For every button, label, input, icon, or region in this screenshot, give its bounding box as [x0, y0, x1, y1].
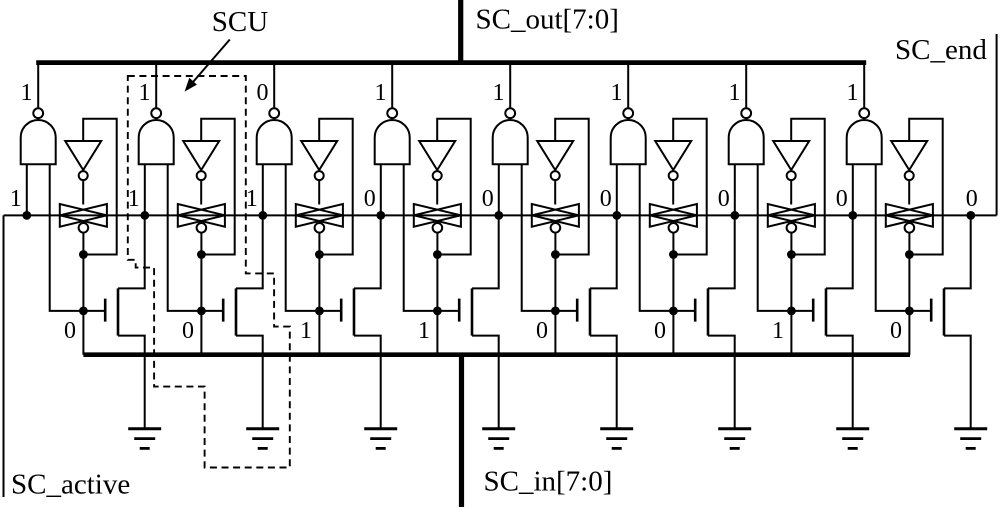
value label 0 at transistor M1 gate node	[64, 318, 76, 344]
wire: top bus to NAND U1 output bubble	[37, 63, 39, 109]
wire: NAND U6 right input down and right to transistor M6 gate	[640, 164, 696, 311]
transistor M1 channel bar	[117, 288, 120, 335]
transistor M5 gate bar	[576, 299, 579, 322]
inverter I1 output bubble	[79, 171, 88, 180]
junction: M7 gate wire meets gate-node vertical wire	[787, 307, 796, 316]
svg-text:1: 1	[128, 186, 140, 212]
wire: inverter I3 output to transmission gate TG3 top	[318, 180, 320, 204]
svg-text:1: 1	[10, 186, 22, 212]
wire: top bus to NAND U7 output bubble	[745, 63, 747, 109]
inverter I3 output bubble	[315, 171, 324, 180]
top bus SC_out (thick)	[36, 60, 866, 65]
wire: inverter I2 input loop (up, over, down to feedback node)	[201, 119, 235, 255]
wire: gate-node vertical (TG8 bubble down to bottom bus)	[908, 233, 910, 355]
cell 1: value label 1 above NAND U1	[21, 80, 33, 106]
svg-text:1: 1	[300, 318, 312, 344]
wire: gate-node vertical (TG4 bubble down to bottom bus)	[436, 233, 438, 355]
ground GND5	[600, 429, 633, 449]
nand U3 output bubble	[269, 108, 279, 118]
svg-text:0: 0	[654, 318, 666, 344]
wire: inverter I4 output to transmission gate TG4 top	[436, 180, 438, 204]
node 4 on scan line, value 0	[364, 186, 385, 220]
junction: M8 gate wire meets gate-node vertical wire	[905, 307, 914, 316]
nand U7 body	[729, 120, 764, 164]
junction: M5 gate wire meets gate-node vertical wire	[551, 307, 560, 316]
wire: NAND U3 right input down and right to transistor M3 gate	[286, 164, 342, 311]
value label 1 at transistor M4 gate node	[418, 318, 430, 344]
svg-text:1: 1	[418, 318, 430, 344]
ground GND6	[718, 429, 751, 449]
junction: M1 gate wire meets gate-node vertical wire	[79, 307, 88, 316]
node 6 on scan line, value 0	[600, 186, 621, 220]
wire: transistor M3 source down to ground	[354, 336, 381, 428]
wire: inverter I3 input loop (up, over, down to feedback node)	[319, 119, 353, 255]
nand U6 body	[611, 120, 646, 164]
junction: feedback node on gate-node wire	[315, 250, 324, 259]
svg-text:0: 0	[966, 186, 978, 212]
svg-text:SC_active: SC_active	[11, 469, 130, 501]
wire: NAND U3 left input down to scan line node	[262, 164, 264, 215]
cell 8: value label 1 above NAND U8	[847, 80, 859, 106]
transistor M5 channel bar	[589, 288, 592, 335]
scan line (horizontal signal wire)	[4, 214, 997, 216]
transistor M7 channel bar	[825, 288, 828, 335]
junction: feedback node on gate-node wire	[433, 250, 442, 259]
junction: feedback node on gate-node wire	[905, 250, 914, 259]
SC_out bus stub bar (thick vertical)	[458, 0, 463, 65]
net label SC_active	[11, 469, 130, 501]
node 1 on scan line, value 1	[10, 186, 31, 220]
nand U2 output bubble	[151, 108, 161, 118]
value label 0 at transistor M6 gate node	[654, 318, 666, 344]
inverter I8 triangle	[891, 141, 927, 170]
svg-text:0: 0	[600, 186, 612, 212]
nand U5 body	[493, 120, 528, 164]
wire: transistor M1 drain up to scan line node 2	[118, 215, 145, 288]
wire: SC_active vertical line at far left	[3, 215, 5, 497]
wire: NAND U8 right input down and right to transistor M8 gate	[876, 164, 932, 311]
inverter I5 triangle	[537, 141, 573, 170]
junction: M2 gate wire meets gate-node vertical wire	[197, 307, 206, 316]
junction: M4 gate wire meets gate-node vertical wire	[433, 307, 442, 316]
inverter I7 output bubble	[787, 171, 796, 180]
wire: transistor M3 drain up to scan line node 4	[354, 215, 381, 288]
wire: inverter I4 input loop (up, over, down to feedback node)	[437, 119, 471, 255]
inverter I6 triangle	[655, 141, 691, 170]
svg-text:1: 1	[375, 80, 387, 106]
inverter I5 output bubble	[551, 171, 560, 180]
wire: NAND U2 right input down and right to transistor M2 gate	[168, 164, 224, 311]
value label 1 at transistor M3 gate node	[300, 318, 312, 344]
svg-text:1: 1	[246, 186, 258, 212]
ground GND1	[128, 429, 161, 449]
wire: NAND U7 left input down to scan line node	[734, 164, 736, 215]
nand U1 body	[21, 120, 56, 164]
ground GND8	[954, 429, 987, 449]
wire: gate-node vertical (TG7 bubble down to bottom bus)	[790, 233, 792, 355]
transmission gate TG2 (two overlapping triangles)	[178, 204, 225, 227]
wire: inverter I5 output to transmission gate TG5 top	[554, 180, 556, 204]
inverter I4 triangle	[419, 141, 455, 170]
inverter I4 output bubble	[433, 171, 442, 180]
SCU dashed boundary box around cell 2	[128, 76, 290, 468]
wire: NAND U1 left input down to scan line node	[26, 164, 28, 215]
wire: gate-node vertical (TG6 bubble down to bottom bus)	[672, 233, 674, 355]
svg-text:0: 0	[836, 186, 848, 212]
wire: inverter I8 output to transmission gate TG8 top	[908, 180, 910, 204]
wire: top bus to NAND U2 output bubble	[155, 63, 157, 109]
junction: feedback node on gate-node wire	[787, 250, 796, 259]
transmission gate TG4 bottom control bubble	[433, 223, 443, 233]
wire: NAND U5 right input down and right to transistor M5 gate	[522, 164, 578, 311]
wire: top bus to NAND U6 output bubble	[627, 63, 629, 109]
transmission gate TG3 bottom control bubble	[315, 223, 325, 233]
wire: transistor M8 source down to ground	[944, 336, 971, 428]
ground GND2	[246, 429, 279, 449]
wire: transistor M8 drain up to scan line node 9	[944, 215, 971, 288]
inverter I7 triangle	[773, 141, 809, 170]
svg-text:0: 0	[257, 80, 269, 106]
wire: NAND U5 left input down to scan line node	[498, 164, 500, 215]
cell 5: value label 1 above NAND U5	[493, 80, 505, 106]
transmission gate TG8 bottom control bubble	[905, 223, 915, 233]
cell 7: value label 1 above NAND U7	[729, 80, 741, 106]
svg-text:1: 1	[21, 80, 33, 106]
transmission gate TG1 (two overlapping triangles)	[60, 204, 107, 227]
svg-text:1: 1	[729, 80, 741, 106]
transistor M7 gate bar	[812, 299, 815, 322]
wire: inverter I1 input loop (up, over, down to feedback node)	[83, 119, 117, 255]
transmission gate TG6 (two overlapping triangles)	[650, 204, 697, 227]
svg-text:SC_in[7:0]: SC_in[7:0]	[484, 466, 613, 498]
node 2 on scan line, value 1	[128, 186, 149, 220]
wire: transistor M5 drain up to scan line node 6	[590, 215, 617, 288]
svg-text:1: 1	[772, 318, 784, 344]
ground GND7	[836, 429, 869, 449]
wire: NAND U2 left input down to scan line node	[144, 164, 146, 215]
transistor M6 gate bar	[694, 299, 697, 322]
svg-text:1: 1	[139, 80, 151, 106]
wire: top bus to NAND U5 output bubble	[509, 63, 511, 109]
value label 1 at transistor M7 gate node	[772, 318, 784, 344]
wire: transistor M4 source down to ground	[472, 336, 499, 428]
transistor M1 gate bar	[104, 299, 107, 322]
transmission gate TG8 (two overlapping triangles)	[886, 204, 933, 227]
wire: gate-node vertical (TG2 bubble down to bottom bus)	[200, 233, 202, 355]
cell 6: value label 1 above NAND U6	[611, 80, 623, 106]
wire: inverter I7 input loop (up, over, down to feedback node)	[791, 119, 825, 255]
inverter I2 output bubble	[197, 171, 206, 180]
wire: inverter I6 output to transmission gate TG6 top	[672, 180, 674, 204]
transistor M4 channel bar	[471, 288, 474, 335]
svg-text:SCU: SCU	[212, 6, 268, 38]
wire: NAND U1 right input down and right to transistor M1 gate	[50, 164, 105, 311]
svg-text:0: 0	[364, 186, 376, 212]
svg-text:0: 0	[890, 318, 902, 344]
junction: M6 gate wire meets gate-node vertical wire	[669, 307, 678, 316]
junction: feedback node on gate-node wire	[551, 250, 560, 259]
SCU pointer arrow	[185, 40, 230, 92]
nand U5 output bubble	[505, 108, 515, 118]
transmission gate TG6 bottom control bubble	[669, 223, 679, 233]
inverter I2 triangle	[183, 141, 219, 170]
svg-text:1: 1	[493, 80, 505, 106]
nand U8 body	[847, 120, 882, 164]
transmission gate TG7 bottom control bubble	[787, 223, 797, 233]
cell 3: value label 0 above NAND U3	[257, 80, 269, 106]
svg-text:0: 0	[536, 318, 548, 344]
bottom bus (thick)	[83, 352, 910, 357]
node 8 on scan line, value 0	[836, 186, 857, 220]
net label SC_in[7:0]	[484, 466, 613, 498]
svg-text:0: 0	[182, 318, 194, 344]
transistor M6 channel bar	[707, 288, 710, 335]
transmission gate TG7 (two overlapping triangles)	[768, 204, 815, 227]
node 9 on scan line, value 0	[966, 186, 978, 220]
wire: transistor M7 drain up to scan line node 8	[826, 215, 853, 288]
transistor M8 gate bar	[930, 299, 933, 322]
wire: transistor M1 source down to ground	[118, 336, 145, 428]
nand U3 body	[257, 120, 292, 164]
wire: transistor M4 drain up to scan line node 5	[472, 215, 499, 288]
transistor M8 channel bar	[943, 288, 946, 335]
wire: transistor M5 source down to ground	[590, 336, 617, 428]
inverter I3 triangle	[301, 141, 337, 170]
wire: top bus to NAND U4 output bubble	[391, 63, 393, 109]
wire: NAND U7 right input down and right to transistor M7 gate	[758, 164, 814, 311]
transistor M3 channel bar	[353, 288, 356, 335]
wire: transistor M2 drain up to scan line node 3	[236, 215, 263, 288]
cell 2: value label 1 above NAND U2	[139, 80, 151, 106]
nand U1 output bubble	[33, 108, 43, 118]
transmission gate TG5 bottom control bubble	[551, 223, 561, 233]
wire: top bus to NAND U8 output bubble	[863, 63, 865, 109]
nand U4 output bubble	[387, 108, 397, 118]
inverter I1 triangle	[65, 141, 101, 170]
SCU label	[212, 6, 268, 38]
transistor M3 gate bar	[340, 299, 343, 322]
wire: gate-node vertical (TG3 bubble down to bottom bus)	[318, 233, 320, 355]
wire: gate-node vertical (TG5 bubble down to bottom bus)	[554, 233, 556, 355]
transmission gate TG4 (two overlapping triangles)	[414, 204, 461, 227]
wire: inverter I7 output to transmission gate TG7 top	[790, 180, 792, 204]
wire: transistor M6 source down to ground	[708, 336, 735, 428]
wire: transistor M2 source down to ground	[236, 336, 263, 428]
ground GND4	[482, 429, 515, 449]
transistor M2 gate bar	[222, 299, 225, 322]
wire: NAND U6 left input down to scan line node	[616, 164, 618, 215]
nand U6 output bubble	[623, 108, 633, 118]
value label 0 at transistor M2 gate node	[182, 318, 194, 344]
transistor M4 gate bar	[458, 299, 461, 322]
svg-text:1: 1	[847, 80, 859, 106]
cell 4: value label 1 above NAND U4	[375, 80, 387, 106]
svg-text:0: 0	[64, 318, 76, 344]
nand U4 body	[375, 120, 410, 164]
transmission gate TG1 bottom control bubble	[79, 223, 89, 233]
wire: NAND U4 left input down to scan line node	[380, 164, 382, 215]
junction: feedback node on gate-node wire	[669, 250, 678, 259]
wire: inverter I1 output to transmission gate TG1 top	[82, 180, 84, 204]
nand U2 body	[139, 120, 174, 164]
wire: NAND U4 right input down and right to transistor M4 gate	[404, 164, 460, 311]
wire: top bus to NAND U3 output bubble	[273, 63, 275, 109]
transmission gate TG3 (two overlapping triangles)	[296, 204, 343, 227]
wire: inverter I2 output to transmission gate TG2 top	[200, 180, 202, 204]
value label 0 at transistor M5 gate node	[536, 318, 548, 344]
wire: gate-node vertical (TG1 bubble down to bottom bus)	[82, 233, 84, 355]
junction: M3 gate wire meets gate-node vertical wire	[315, 307, 324, 316]
net label SC_out[7:0]	[476, 4, 619, 36]
wire: SC_end vertical line at far right	[996, 34, 998, 215]
wire: transistor M6 drain up to scan line node 7	[708, 215, 735, 288]
svg-text:SC_end: SC_end	[895, 34, 987, 66]
svg-text:1: 1	[611, 80, 623, 106]
SC_in bus stub bar (thick vertical)	[459, 353, 464, 507]
net label SC_end	[895, 34, 987, 66]
wire: NAND U8 left input down to scan line node	[852, 164, 854, 215]
nand U7 output bubble	[741, 108, 751, 118]
svg-text:0: 0	[718, 186, 730, 212]
wire: transistor M7 source down to ground	[826, 336, 853, 428]
node 3 on scan line, value 1	[246, 186, 267, 220]
svg-text:0: 0	[482, 186, 494, 212]
wire: inverter I5 input loop (up, over, down to feedback node)	[555, 119, 589, 255]
transistor M2 channel bar	[235, 288, 238, 335]
transmission gate TG2 bottom control bubble	[197, 223, 207, 233]
junction: feedback node on gate-node wire	[79, 250, 88, 259]
node 5 on scan line, value 0	[482, 186, 503, 220]
inverter I6 output bubble	[669, 171, 678, 180]
inverter I8 output bubble	[905, 171, 914, 180]
value label 0 at transistor M8 gate node	[890, 318, 902, 344]
junction: feedback node on gate-node wire	[197, 250, 206, 259]
node 7 on scan line, value 0	[718, 186, 739, 220]
transmission gate TG5 (two overlapping triangles)	[532, 204, 579, 227]
wire: inverter I6 input loop (up, over, down to feedback node)	[673, 119, 707, 255]
wire: inverter I8 input loop (up, over, down to feedback node)	[909, 119, 943, 255]
nand U8 output bubble	[859, 108, 869, 118]
svg-text:SC_out[7:0]: SC_out[7:0]	[476, 4, 619, 36]
ground GND3	[364, 429, 397, 449]
